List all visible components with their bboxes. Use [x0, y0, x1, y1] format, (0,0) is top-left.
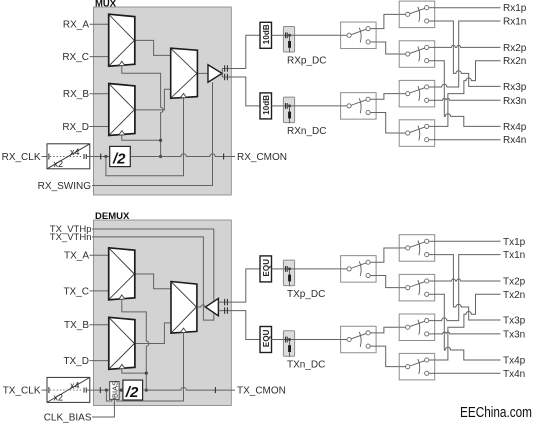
node TX_A: [64, 251, 109, 262]
wire S6 out2 to S4 input: [376, 113, 399, 134]
capacitor C4: [225, 307, 228, 313]
svg-text:x2: x2: [54, 392, 64, 402]
bias box BIAS: [110, 381, 120, 399]
svg-text:RX_C: RX_C: [62, 52, 89, 63]
switch S12: [399, 353, 435, 380]
wire clock line to TX_CMON: [143, 387, 235, 390]
node RX_SWING: [38, 82, 213, 192]
wire S12 out1 to Tx2n: [435, 294, 501, 360]
svg-text:Tx3n: Tx3n: [503, 329, 525, 340]
node RX_D: [62, 122, 108, 133]
svg-text:RX_A: RX_A: [63, 20, 89, 31]
junction clock line tap: [145, 389, 148, 392]
wire S2 out2 to Rx4p: [435, 61, 501, 127]
wire full-rate clock loop to mux M3 clock: [106, 97, 184, 176]
dc tick on clock output: [214, 387, 216, 393]
switch S9: [399, 235, 435, 262]
svg-text:Rx1p: Rx1p: [503, 3, 527, 14]
svg-text:/2: /2: [125, 384, 139, 401]
wire clock junction drop: [145, 373, 147, 390]
svg-text:Rx4n: Rx4n: [503, 135, 526, 146]
svg-text:x4: x4: [70, 147, 80, 157]
capacitor C1: [225, 65, 228, 71]
wire S4 out1 to Rx2n: [435, 61, 501, 127]
svg-text:RX_CMON: RX_CMON: [237, 152, 287, 163]
node TX_VTHn: [50, 232, 214, 320]
wire RXn_DC to switch S6: [295, 105, 341, 107]
wire TXn_DC to switch S8: [295, 339, 341, 341]
svg-text:CLK_BIAS: CLK_BIAS: [44, 413, 92, 424]
switch S1: [399, 1, 435, 28]
node TX_D: [63, 356, 110, 367]
wire demux M5 clock to junction: [122, 368, 147, 373]
capacitor C2: [225, 74, 228, 80]
wire S7 out1 to S9 input: [376, 248, 399, 262]
capacitor C3: [225, 299, 228, 305]
dc tick on clock output: [223, 154, 225, 160]
svg-text:TX_D: TX_D: [63, 356, 89, 367]
wire buffer output split: [221, 69, 223, 78]
node TX_CLK: [3, 386, 50, 397]
svg-text:Rx1n: Rx1n: [503, 17, 526, 28]
svg-text:TXn_DC: TXn_DC: [287, 360, 325, 371]
svg-text:DEMUX: DEMUX: [95, 211, 130, 222]
svg-text:Tx2n: Tx2n: [503, 290, 525, 301]
wire M1/M2 clock net to divider output node: [122, 66, 163, 141]
switch S8 negative 2:1: [341, 326, 377, 353]
svg-text:Tx3p: Tx3p: [503, 316, 526, 327]
op-amp buffer U1: [208, 65, 222, 82]
wire S1 out1 to Rx1p: [435, 7, 501, 9]
junction BIAS output: [120, 389, 123, 392]
wire mux M2 clock to junction: [122, 134, 161, 156]
svg-text:Tx2p: Tx2p: [503, 277, 526, 288]
wire mux M3 output to buffer U1: [197, 72, 208, 74]
divider /2 box U4: [123, 380, 143, 401]
svg-text:RX_CLK: RX_CLK: [2, 152, 41, 163]
equalizer EQU positive path: [260, 256, 272, 282]
switch S2: [399, 41, 435, 68]
wire S5 out2 to S2 input: [376, 42, 399, 54]
wire S12 out2 to Tx4n: [435, 372, 501, 374]
wire full-rate clock loop to demux M6 clock: [106, 332, 183, 401]
wire BIAS to divider: [119, 389, 123, 391]
wire negative input through cap: [218, 311, 260, 340]
wire S11 out1 to Tx1n: [435, 255, 501, 321]
junction clock net: [145, 372, 148, 375]
switch S5 positive 1:2: [341, 22, 377, 49]
svg-text:TX_C: TX_C: [63, 286, 89, 297]
svg-text:Rx4p: Rx4p: [503, 122, 527, 133]
svg-text:BIAS: BIAS: [110, 381, 119, 398]
DEMUX block body: [94, 220, 232, 406]
wire S3 out1 to Rx1n: [435, 21, 501, 87]
multiplier select box x4/x2: [47, 144, 90, 169]
svg-text:Tx4n: Tx4n: [503, 369, 525, 380]
mux M3 2:1: [171, 48, 198, 98]
wire 10dB to RXp_DC: [272, 34, 284, 36]
svg-text:EEChina.com: EEChina.com: [460, 404, 532, 421]
equalizer EQU negative path: [260, 327, 272, 353]
svg-text:TX_CLK: TX_CLK: [3, 386, 41, 397]
wire S1 out2 to Rx3p: [435, 21, 501, 86]
svg-text:TX_VTHn: TX_VTHn: [50, 232, 92, 243]
wire mux M2 output to mux M3 input 2: [135, 89, 171, 110]
svg-text:Rx3n: Rx3n: [503, 96, 526, 107]
svg-text:x2: x2: [54, 159, 64, 169]
svg-text:EQU: EQU: [262, 259, 271, 277]
switch S3: [399, 80, 435, 107]
wire S9 out1 to Tx1p: [435, 240, 501, 242]
op-amp buffer U3: [205, 298, 218, 315]
svg-text:MUX: MUX: [95, 0, 117, 9]
svg-text:TX_B: TX_B: [64, 320, 89, 331]
node CLK_BIAS: [44, 399, 115, 423]
node RX_A: [63, 20, 109, 31]
wire demux M4 input from demux M6 output 1: [135, 274, 171, 289]
svg-text:TX_A: TX_A: [64, 251, 89, 262]
wire S8 out2 to S12 input: [376, 346, 399, 367]
svg-text:RX_SWING: RX_SWING: [38, 181, 92, 192]
junction clock net: [159, 139, 162, 142]
wire 10dB to RXn_DC: [272, 105, 284, 107]
wire TXp_DC to switch S7: [295, 268, 341, 270]
junction clock line tap: [159, 155, 162, 158]
wire EQU to TXp_DC: [272, 268, 284, 270]
wire S2 out1 to Rx2p: [435, 45, 501, 47]
switch S10: [399, 274, 435, 301]
dc offset adjust TXn_DC: [283, 331, 294, 357]
svg-text:Rx2n: Rx2n: [503, 56, 526, 67]
wire S8 out1 to S11 input: [376, 327, 399, 333]
demux M4 1:2: [109, 248, 135, 300]
wire S4 out2 to Rx4n: [435, 139, 501, 141]
switch S11: [399, 314, 435, 341]
node RX_B: [63, 89, 109, 100]
svg-text:RXp_DC: RXp_DC: [287, 56, 326, 67]
svg-text:EQU: EQU: [262, 329, 271, 347]
node RX_C: [62, 52, 108, 63]
svg-text:Tx1n: Tx1n: [503, 250, 525, 261]
svg-text:RX_B: RX_B: [63, 89, 89, 100]
switch S6 negative 1:2: [341, 93, 377, 120]
switch S7 positive 2:1: [341, 256, 377, 283]
svg-text:Tx4p: Tx4p: [503, 356, 526, 367]
demux M5 1:2: [109, 317, 135, 369]
wire demux M5 input from demux M6 output 2: [135, 323, 171, 344]
node TX_C: [63, 286, 110, 297]
switch S4: [399, 120, 435, 147]
divider /2 box U2: [110, 146, 131, 167]
demux M6 1:2: [171, 282, 197, 334]
junction divider bypass tap: [105, 389, 108, 392]
node TX_VTHp: [50, 224, 214, 301]
svg-text:10dB: 10dB: [262, 24, 271, 44]
dc offset adjust RXp_DC: [283, 27, 294, 53]
wire clock dashed select path: [49, 154, 110, 160]
svg-text:10dB: 10dB: [262, 95, 271, 115]
attenuator 10dB negative path: [260, 93, 272, 119]
wire S7 out2 to S10 input: [376, 276, 399, 288]
wire M4/M5 clock net to divider output node: [122, 299, 149, 373]
wire S9 out2 to Tx3p: [435, 255, 501, 320]
svg-text:TXp_DC: TXp_DC: [287, 289, 325, 300]
wire S6 out1 to S3 input: [376, 94, 399, 100]
junction divider bypass tap: [104, 155, 107, 158]
svg-text:x4: x4: [70, 380, 80, 390]
svg-text:/2: /2: [112, 151, 126, 168]
mux M2 2:1: [109, 84, 135, 136]
svg-text:RXn_DC: RXn_DC: [287, 126, 326, 137]
svg-text:TX_CMON: TX_CMON: [237, 386, 286, 397]
node TX_B: [64, 320, 109, 331]
wire EQU to TXn_DC: [272, 339, 284, 341]
wire positive output through cap: [222, 35, 260, 68]
wire S11 out2 to Tx3n: [435, 332, 501, 334]
wire RXp_DC to switch S5: [295, 34, 341, 36]
dc offset adjust TXp_DC: [283, 260, 294, 286]
wire S10 out2 to Tx4p: [435, 294, 501, 360]
attenuator 10dB positive path: [260, 22, 272, 48]
wire S5 out1 to S1 input: [376, 14, 399, 28]
wire mux M1 output to mux M3 input 1: [135, 40, 171, 55]
wire clock dashed select path: [49, 387, 110, 393]
wire buffer U3 to demux M6 input: [197, 305, 206, 307]
wire S10 out1 to Tx2p: [435, 279, 501, 281]
node RX_CLK: [2, 152, 50, 163]
wire positive input through cap: [218, 269, 260, 302]
svg-text:RX_D: RX_D: [62, 122, 89, 133]
svg-text:Rx2p: Rx2p: [503, 43, 527, 54]
MUX block body: [94, 7, 232, 195]
wire S3 out2 to Rx3n: [435, 98, 501, 100]
mux M1 2:1: [109, 14, 135, 66]
wire negative output through cap: [222, 77, 260, 106]
multiplier select box x4/x2: [47, 377, 90, 402]
svg-text:Tx1p: Tx1p: [503, 237, 526, 248]
dc offset adjust RXn_DC: [283, 97, 294, 123]
wire clock line to RX_CMON: [130, 154, 235, 157]
svg-text:Rx3p: Rx3p: [503, 82, 527, 93]
